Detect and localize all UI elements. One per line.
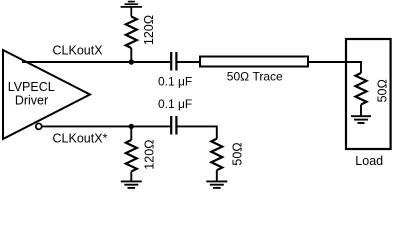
wire R2 top lead [130, 126, 132, 140]
wire R3 bottom lead [216, 170, 218, 181]
svg-text:LVPECL: LVPECL [8, 80, 55, 94]
ground (top, above R1, pointing up) [121, 2, 142, 17]
wire corner down to R4 [360, 61, 362, 73]
ground (load) [351, 116, 371, 123]
resistor R2 120 ohm (bottom pull) [126, 140, 137, 172]
resistor R3 50 ohm (bottom) [211, 139, 222, 171]
inverter bubble on CLKoutX* output [36, 123, 42, 129]
wire C1 to trace box [178, 61, 200, 63]
svg-text:0.1 μF: 0.1 μF [158, 97, 192, 111]
svg-text:120Ω: 120Ω [142, 139, 156, 169]
ground (below R3) [206, 181, 227, 188]
svg-text:0.1 μF: 0.1 μF [158, 75, 192, 89]
wire R2 bottom lead [130, 172, 132, 182]
load box [346, 39, 391, 149]
transmission line 50 ohm Trace box [200, 57, 308, 67]
capacitor C1 0.1 uF (top) [171, 52, 176, 71]
junction dot bottom node [129, 124, 134, 129]
svg-text:CLKoutX*: CLKoutX* [53, 132, 108, 146]
svg-text:50Ω: 50Ω [230, 142, 244, 165]
wire C2 to R3 with corner [178, 126, 217, 138]
ground (below R2) [121, 181, 142, 188]
svg-text:120Ω: 120Ω [142, 15, 156, 45]
svg-text:50Ω: 50Ω [375, 79, 389, 102]
wire R4 bottom lead [360, 105, 362, 117]
capacitor C2 0.1 uF (bottom) [171, 116, 176, 135]
resistor R1 120 ohm (top pull) [126, 17, 137, 49]
svg-text:CLKoutX: CLKoutX [53, 44, 104, 58]
junction dot top node [129, 59, 134, 64]
wire CLKoutX (top output) [22, 61, 170, 63]
resistor R4 50 ohm (load) [356, 73, 367, 105]
op-amp U1 LVPECL Driver triangle [3, 50, 90, 139]
wire CLKoutX* (bottom output) [42, 125, 170, 127]
svg-text:Load: Load [355, 154, 383, 168]
svg-text:50Ω Trace: 50Ω Trace [227, 70, 283, 84]
wire trace box to load [309, 61, 362, 63]
wire R1 bottom lead [130, 48, 132, 62]
svg-text:Driver: Driver [15, 94, 48, 108]
